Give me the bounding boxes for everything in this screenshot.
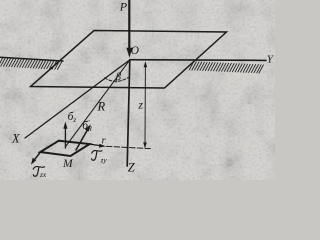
svg-text:O: O [131, 45, 140, 57]
paper background [0, 0, 275, 180]
svg-text:r: r [102, 135, 107, 147]
label tau_zy (script tau glyph) [92, 151, 102, 161]
hatching left ground [0, 58, 62, 70]
svg-text:Z: Z [128, 161, 136, 175]
Y axis line (right, ground trace) [130, 59, 266, 62]
Z axis [127, 60, 130, 166]
sigma_R' arrow (up along R) [76, 130, 88, 150]
svg-text:P: P [119, 0, 128, 14]
svg-text:zx: zx [39, 170, 47, 179]
beta angle arc (dashed) [105, 77, 129, 81]
svg-text:X: X [11, 132, 21, 146]
surface plane parallelogram [31, 31, 227, 89]
tau_zy arrow (right) [90, 144, 102, 146]
stress element plate at M [40, 141, 89, 156]
label tau_zx (script tau glyph) [33, 167, 44, 177]
tau_zx arrow (down-left) [34, 152, 41, 160]
svg-text:zy: zy [100, 156, 108, 165]
load P arrow [128, 0, 130, 49]
svg-text:M: M [62, 158, 74, 170]
svg-text:z: z [137, 98, 143, 112]
hatching right ground [189, 62, 263, 73]
R line from O to M [66, 60, 130, 146]
sigma_z arrow (up) [64, 127, 66, 148]
svg-text:β: β [115, 72, 122, 83]
ground surface line (left of origin) [0, 57, 63, 61]
svg-text:R: R [97, 100, 106, 114]
X axis [25, 60, 130, 138]
z dimension line with arrows [144, 63, 146, 147]
r dimension dashed line [107, 146, 153, 148]
